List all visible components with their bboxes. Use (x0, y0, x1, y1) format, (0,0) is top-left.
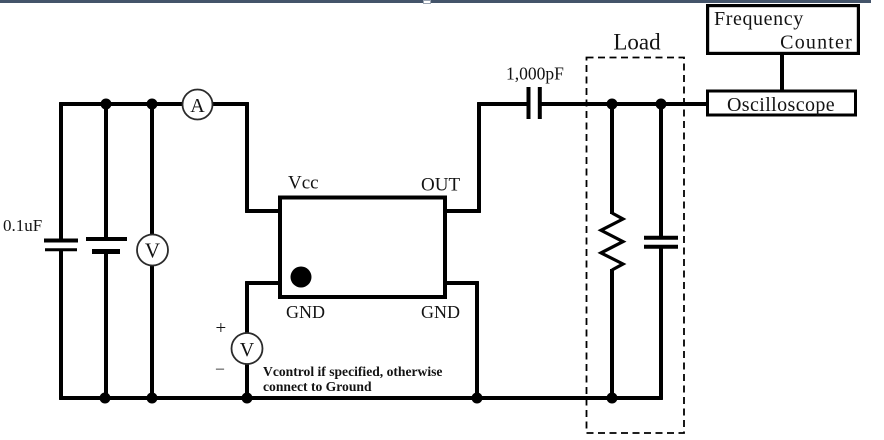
wire OUT riser (477, 102, 481, 212)
wire battery branch lower (104, 253, 108, 398)
junction dot bottom gnd right (472, 393, 483, 404)
oscilloscope box (708, 91, 856, 116)
wire voltmeter branch upper (150, 104, 154, 235)
wire load resistor branch upper (610, 104, 614, 214)
wire C1 branch upper (59, 102, 63, 240)
svg-text:Oscilloscope: Oscilloscope (727, 94, 835, 116)
wire GND right riser (475, 281, 479, 399)
junction dot top battery (101, 99, 112, 110)
svg-text:–: – (215, 360, 225, 377)
voltmeter V1 (137, 235, 168, 266)
wire load capacitor branch upper (659, 104, 663, 236)
svg-text:GND: GND (286, 302, 325, 322)
svg-text:A: A (190, 95, 205, 117)
wire battery branch upper (104, 104, 108, 239)
svg-text:Counter: Counter (780, 32, 853, 54)
wire Vcc riser (245, 102, 249, 212)
wire GND left riser lower (245, 364, 249, 400)
svg-text:Load: Load (613, 30, 661, 55)
svg-text:1,000pF: 1,000pF (506, 64, 564, 84)
wire frequency counter to oscilloscope (780, 52, 784, 92)
junction dot bottom load resistor (607, 393, 618, 404)
junction dot bottom voltmeter (147, 393, 158, 404)
svg-text:Vcontrol if specified, otherwi: Vcontrol if specified, otherwise (263, 364, 442, 379)
svg-text:+: + (216, 318, 227, 339)
svg-text:V: V (240, 339, 255, 361)
wire top bus left segment (59, 102, 183, 106)
junction dot top load resistor (607, 99, 618, 110)
junction dot bottom vcontrol (242, 393, 253, 404)
wire Vcc pin (245, 209, 280, 213)
junction dot top load capacitor (656, 99, 667, 110)
svg-text:OUT: OUT (421, 175, 460, 196)
junction dot bottom battery (100, 393, 111, 404)
wire OUT pin (445, 209, 481, 213)
wire GND left riser upper (245, 281, 249, 333)
svg-text:Vcc: Vcc (288, 173, 319, 194)
svg-text:GND: GND (421, 302, 460, 322)
svg-text:connect to Ground: connect to Ground (263, 379, 372, 394)
load dashed box (587, 58, 685, 434)
capacitor C3 load plates (644, 238, 678, 247)
DUT oscillator U1 (280, 198, 445, 298)
capacitor C1 0.1uF plates (44, 241, 78, 250)
wire GND right pin (445, 281, 479, 285)
wire load capacitor branch lower (659, 249, 663, 400)
wire OUT to coupling cap (477, 102, 527, 106)
voltmeter V2 Vcontrol (232, 333, 263, 364)
wire C1 branch lower (59, 250, 63, 400)
wire ammeter to Vcc corner (212, 102, 249, 106)
wire coupling cap to oscilloscope (541, 102, 707, 106)
svg-text:V: V (145, 239, 160, 263)
resistor R1 load (601, 213, 623, 270)
junction dot top voltmeter (147, 99, 158, 110)
ammeter A1 (183, 90, 213, 120)
wire load resistor branch lower (610, 269, 614, 398)
svg-text:0.1uF: 0.1uF (3, 216, 42, 235)
wire GND left pin (245, 281, 280, 285)
pin 1 dot (291, 267, 312, 288)
battery B1 (86, 239, 127, 252)
wire bottom bus (59, 396, 662, 400)
capacitor C2 1000pF plates (529, 87, 540, 119)
frequency counter box (708, 6, 859, 54)
wire voltmeter branch lower (150, 266, 154, 399)
svg-text:Frequency: Frequency (714, 8, 804, 30)
